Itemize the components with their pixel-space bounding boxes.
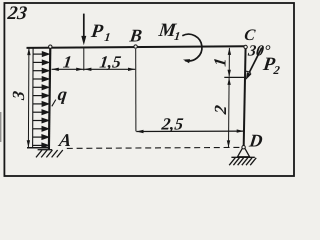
hatching at D <box>229 158 256 165</box>
right column member C-D <box>244 47 246 146</box>
extension line under B <box>135 49 137 131</box>
moment M1 arc <box>182 34 202 61</box>
dimension line 2,5 <box>136 130 244 132</box>
force P1 arrow <box>83 14 85 38</box>
angle arc at P2 <box>246 71 251 73</box>
ground line at D <box>231 156 254 158</box>
border frame <box>4 3 294 176</box>
svg-text:1,5: 1,5 <box>99 53 123 72</box>
force P2 arrow <box>249 48 261 73</box>
dimension line 1 / 1.5 <box>52 68 136 70</box>
dimension 1 right line <box>228 48 230 77</box>
left column member A-top <box>49 47 50 150</box>
extension line under P1 <box>83 48 85 70</box>
edge smudge <box>0 112 1 142</box>
extension line right at y=77 <box>224 76 245 78</box>
ground line at A <box>38 149 53 151</box>
svg-text:B: B <box>128 26 143 46</box>
node B <box>134 45 137 48</box>
node C <box>244 45 247 48</box>
pin support D: hinge circle <box>242 146 245 149</box>
svg-text:23: 23 <box>6 3 29 24</box>
svg-text:A: A <box>57 130 72 150</box>
dashed line A-D <box>67 147 242 148</box>
beam top (left cap to C) <box>27 46 247 48</box>
pin support D: triangle <box>238 149 250 157</box>
distributed load baseline <box>32 48 35 147</box>
dimension 3 line <box>27 48 30 147</box>
paper background <box>0 0 300 181</box>
svg-text:D: D <box>247 130 263 150</box>
hatching at A <box>36 150 63 157</box>
distributed load arrows q <box>33 52 49 148</box>
label q <box>52 100 56 107</box>
distributed load bottom cap <box>27 147 49 149</box>
svg-text:2,5: 2,5 <box>160 115 185 134</box>
dimension 2 right line <box>228 78 231 147</box>
node top-left <box>49 45 52 48</box>
